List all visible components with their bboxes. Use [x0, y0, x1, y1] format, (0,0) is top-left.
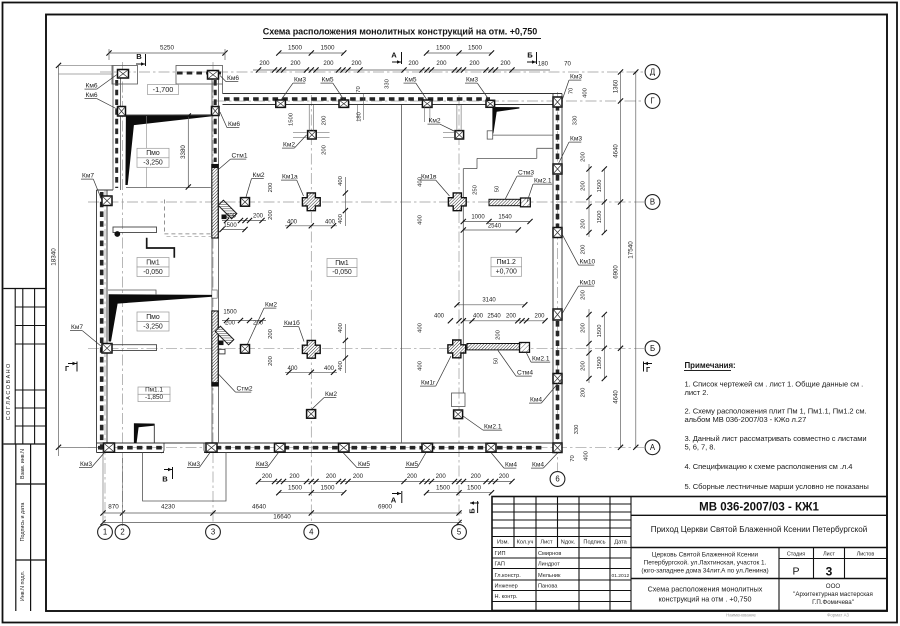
svg-text:1500: 1500 — [223, 223, 237, 229]
svg-text:4. Спецификацию к схеме распол: 4. Спецификацию к схеме расположения см … — [685, 462, 853, 471]
svg-text:Км1в: Км1в — [421, 174, 437, 181]
svg-text:А: А — [391, 51, 397, 60]
column Км4 — [553, 443, 562, 453]
svg-text:Д: Д — [650, 68, 656, 77]
svg-text:200: 200 — [351, 60, 362, 67]
svg-text:1500: 1500 — [468, 45, 483, 52]
svg-text:200: 200 — [534, 314, 545, 320]
svg-text:1500: 1500 — [436, 45, 451, 52]
slab Пм1 left — [137, 258, 169, 268]
wall right (grid 6) — [552, 94, 554, 453]
svg-text:Км7: Км7 — [71, 324, 83, 331]
niche at Км2.1 — [452, 393, 466, 407]
grid bubble Б — [645, 341, 660, 356]
svg-text:Наименование: Наименование — [726, 613, 756, 618]
doorway gap in bottom wall — [164, 451, 204, 455]
svg-text:С О Г Л А С О В А Н О: С О Г Л А С О В А Н О — [6, 364, 12, 420]
svg-text:Км6: Км6 — [86, 83, 98, 90]
svg-text:Подпись: Подпись — [583, 540, 605, 546]
svg-text:Км3: Км3 — [256, 461, 268, 468]
svg-text:Км2.1: Км2.1 — [534, 178, 552, 185]
svg-text:А: А — [650, 443, 656, 452]
svg-text:Км6: Км6 — [86, 92, 98, 99]
svg-text:Б: Б — [650, 344, 655, 353]
slab Пм1.1 — [138, 387, 170, 394]
svg-text:Км3: Км3 — [80, 461, 92, 468]
dim bottom total 16640 — [103, 522, 462, 524]
svg-text:400: 400 — [338, 213, 344, 224]
dim chain bottom main — [103, 512, 462, 514]
stair wedge upper-left (belfry) — [125, 114, 211, 185]
strip cell Подпись и дата — [16, 559, 46, 561]
floor drain dot — [114, 231, 120, 237]
svg-text:50: 50 — [493, 357, 499, 364]
svg-text:Листов: Листов — [857, 551, 875, 557]
svg-text:200: 200 — [408, 60, 419, 67]
svg-text:Км10: Км10 — [580, 280, 596, 287]
column Км2 — [308, 131, 317, 139]
right dim column 1 — [620, 72, 622, 447]
svg-text:Пм1: Пм1 — [335, 260, 349, 267]
column Км6 — [118, 70, 129, 79]
wall bottom (row А) — [97, 442, 563, 444]
slab Пм0 lower — [137, 312, 169, 322]
svg-text:5250: 5250 — [160, 45, 175, 52]
svg-text:Стм3: Стм3 — [518, 170, 534, 177]
svg-text:Стм2: Стм2 — [237, 386, 253, 393]
svg-text:Км6: Км6 — [227, 75, 239, 82]
svg-text:200: 200 — [581, 360, 587, 371]
column Км3 — [553, 164, 562, 174]
svg-text:Б: Б — [468, 508, 477, 514]
svg-text:6900: 6900 — [378, 504, 393, 511]
column Км3 — [104, 443, 115, 452]
svg-text:Б: Б — [527, 51, 533, 60]
svg-text:Км2: Км2 — [283, 142, 295, 149]
stair wedge small lower-left — [134, 423, 155, 443]
svg-text:330: 330 — [574, 424, 580, 435]
title block left grid — [535, 497, 537, 611]
svg-text:-3,250: -3,250 — [143, 160, 163, 167]
extension lines below top wall — [308, 105, 310, 131]
svg-text:200: 200 — [436, 60, 447, 67]
column Км3 — [486, 100, 495, 107]
grid bubble 1 — [98, 525, 113, 540]
svg-text:200: 200 — [322, 115, 328, 126]
svg-text:2540: 2540 — [487, 314, 501, 320]
dashed slab opening edge — [163, 200, 165, 234]
svg-text:Дата: Дата — [614, 540, 627, 546]
dim 3380 line — [187, 116, 189, 187]
column Км7 — [102, 196, 112, 206]
svg-text:70: 70 — [356, 86, 362, 93]
svg-text:200: 200 — [506, 314, 517, 320]
svg-text:200: 200 — [290, 60, 301, 67]
svg-text:ООО: ООО — [826, 583, 841, 590]
svg-text:Км2: Км2 — [429, 118, 441, 125]
grid axes dash-dot — [104, 190, 106, 525]
svg-text:200: 200 — [581, 180, 587, 191]
dim chain bottom 200s — [258, 481, 512, 483]
grid bubble 6 — [550, 472, 565, 487]
svg-text:конструкций на отм . +0,750: конструкций на отм . +0,750 — [658, 595, 751, 604]
column Км5 — [339, 100, 349, 107]
wall pier Стм2 — [212, 311, 218, 386]
svg-text:200: 200 — [326, 473, 337, 480]
svg-text:200: 200 — [268, 355, 274, 366]
column Км3 — [553, 97, 562, 107]
svg-text:Км1г: Км1г — [421, 380, 436, 387]
svg-text:Г.П.Фомичева": Г.П.Фомичева" — [812, 599, 854, 606]
svg-text:Км3: Км3 — [188, 461, 200, 468]
svg-text:Мельник: Мельник — [538, 573, 561, 579]
svg-text:400: 400 — [473, 314, 484, 320]
svg-text:Км1б: Км1б — [284, 319, 300, 327]
dim chain top row 1 — [109, 52, 225, 54]
block Км2.1 end of Стм3 — [521, 198, 531, 207]
title block sheet name — [778, 579, 780, 611]
svg-text:01.2012: 01.2012 — [612, 573, 630, 579]
column Км5 — [422, 100, 432, 107]
svg-text:4: 4 — [309, 528, 314, 537]
belfry block left wall (dashed) — [112, 66, 114, 191]
level -1,700 — [148, 85, 179, 95]
stair slab outline right side — [493, 134, 553, 136]
svg-text:200: 200 — [226, 214, 237, 220]
svg-text:-3,250: -3,250 — [143, 323, 163, 330]
svg-text:альбом МВ 036-2007/03 - КЖо л.: альбом МВ 036-2007/03 - КЖо л.27 — [685, 415, 807, 424]
svg-text:Примечания:: Примечания: — [685, 361, 736, 370]
left attribute strip stamp grid — [4, 288, 47, 290]
svg-text:200: 200 — [471, 473, 482, 480]
svg-text:Инв.N подл.: Инв.N подл. — [20, 571, 26, 601]
svg-text:Линдрот: Линдрот — [538, 562, 560, 568]
beam stub right of grid3 wall (row Б) — [219, 349, 225, 354]
svg-text:200: 200 — [268, 182, 274, 193]
svg-text:200: 200 — [262, 473, 273, 480]
svg-text:400: 400 — [417, 214, 423, 225]
svg-text:5, 6, 7, 8.: 5, 6, 7, 8. — [685, 443, 716, 452]
beam row Б left — [111, 345, 157, 351]
svg-text:+0,700: +0,700 — [496, 269, 517, 276]
svg-text:200: 200 — [500, 60, 511, 67]
svg-text:1500: 1500 — [223, 310, 237, 316]
svg-text:-1,700: -1,700 — [153, 85, 174, 94]
left dim 18340 — [58, 65, 60, 456]
beam Стм4 (row Б) — [467, 344, 520, 350]
belfry stair edge line — [146, 116, 148, 187]
svg-text:17540: 17540 — [628, 241, 635, 259]
svg-text:Км3: Км3 — [570, 136, 582, 143]
title block stage/sheet cells — [813, 548, 815, 579]
svg-text:Пмо: Пмо — [146, 314, 160, 321]
svg-text:70: 70 — [569, 87, 575, 94]
svg-text:лист 2.: лист 2. — [685, 388, 709, 397]
svg-text:6: 6 — [555, 475, 559, 484]
svg-text:Км5: Км5 — [358, 461, 370, 468]
svg-text:870: 870 — [108, 504, 119, 511]
svg-text:Р: Р — [792, 566, 799, 578]
column Км5 — [339, 443, 350, 452]
column Км2 — [455, 131, 464, 139]
block Км2.1 end of Стм4 — [520, 343, 530, 353]
svg-text:1500: 1500 — [467, 485, 482, 492]
svg-text:Км6: Км6 — [228, 121, 240, 128]
svg-text:Км2.1: Км2.1 — [484, 424, 502, 431]
svg-text:Формат А3: Формат А3 — [827, 613, 849, 618]
dim chain bottom 1500s — [279, 492, 344, 494]
column Км1в (cross) — [448, 193, 466, 211]
wall pier Стм1 — [212, 165, 218, 239]
strip cell Взам. инв.N — [15, 444, 17, 611]
belfry block top band — [176, 66, 223, 85]
svg-text:3140: 3140 — [482, 298, 496, 304]
column Км2 — [241, 198, 250, 207]
svg-text:200: 200 — [259, 60, 270, 67]
svg-text:(юго-западнее дома 34лит.А по: (юго-западнее дома 34лит.А по ул.Ленина) — [641, 568, 768, 575]
svg-text:400: 400 — [338, 322, 344, 333]
grid bubble 4 — [304, 525, 319, 540]
svg-text:Км5: Км5 — [322, 77, 334, 84]
title block document number — [631, 514, 887, 516]
svg-text:Схема расположения монолитных: Схема расположения монолитных конструкци… — [263, 27, 537, 37]
svg-text:200: 200 — [436, 473, 447, 480]
svg-text:Км4: Км4 — [530, 397, 542, 404]
svg-text:330: 330 — [385, 78, 391, 89]
svg-text:Км3: Км3 — [466, 77, 478, 84]
grid bubble Д — [645, 65, 660, 80]
svg-text:1500: 1500 — [320, 485, 335, 492]
column Км10 — [553, 228, 562, 238]
column Км1а (cross) — [302, 193, 320, 211]
svg-text:Смирнов: Смирнов — [538, 551, 561, 557]
grid bubble 5 — [452, 525, 467, 540]
svg-text:Схема расположения монолитных: Схема расположения монолитных — [648, 585, 763, 594]
svg-text:180: 180 — [538, 61, 549, 68]
svg-text:Пмо: Пмо — [146, 150, 160, 157]
svg-text:330: 330 — [573, 115, 579, 126]
svg-text:Петербургской. ул.Лахтинская,: Петербургской. ул.Лахтинская, участок 1. — [644, 559, 767, 567]
svg-text:1: 1 — [103, 528, 107, 537]
ext lines at Км2 columns — [293, 132, 307, 134]
column Км2 — [307, 410, 316, 419]
svg-text:Км2.1: Км2.1 — [532, 356, 550, 363]
svg-text:Км2: Км2 — [265, 302, 277, 309]
svg-text:50: 50 — [495, 185, 501, 192]
beam row В left — [113, 227, 157, 233]
svg-text:1500: 1500 — [597, 324, 603, 338]
svg-text:Стм1: Стм1 — [232, 153, 248, 160]
svg-text:Лист: Лист — [540, 540, 553, 546]
column Км6 — [208, 71, 219, 80]
svg-text:70: 70 — [564, 61, 571, 68]
title block object cell — [631, 578, 887, 580]
grid bubble Г — [645, 94, 660, 109]
right dim total 17540 — [635, 72, 637, 447]
svg-text:В: В — [136, 52, 142, 61]
svg-text:400: 400 — [338, 360, 344, 371]
svg-text:Км5: Км5 — [406, 461, 418, 468]
diagonal brace диаг.2 — [215, 326, 234, 345]
column Км3 — [275, 443, 286, 452]
svg-text:Г: Г — [65, 364, 69, 373]
svg-text:5: 5 — [457, 528, 462, 537]
svg-text:Стм4: Стм4 — [517, 370, 533, 377]
svg-text:1500: 1500 — [288, 485, 303, 492]
svg-text:200: 200 — [353, 473, 364, 480]
svg-text:2: 2 — [120, 528, 124, 537]
diagonal brace диаг.1 — [218, 200, 237, 219]
svg-text:1. Список чертежей см . лист 1: 1. Список чертежей см . лист 1. Общие да… — [685, 380, 864, 389]
svg-text:200: 200 — [323, 60, 334, 67]
svg-text:3380: 3380 — [180, 145, 187, 159]
svg-text:200: 200 — [322, 144, 328, 155]
svg-text:400: 400 — [584, 450, 590, 461]
interior slab edge at grid 4+ — [400, 105, 402, 443]
svg-text:Панова: Панова — [538, 584, 558, 590]
svg-text:200: 200 — [499, 473, 510, 480]
column Км1б (cross) — [302, 340, 320, 358]
right small chains — [588, 164, 590, 237]
column Км4 — [486, 443, 496, 452]
grid bubble А — [645, 440, 660, 455]
svg-text:400: 400 — [583, 87, 589, 98]
svg-text:Км1а: Км1а — [282, 174, 298, 181]
svg-text:200: 200 — [407, 473, 418, 480]
column Км2.1 — [454, 410, 463, 419]
svg-text:4640: 4640 — [612, 144, 619, 158]
svg-text:ГАП: ГАП — [495, 562, 505, 568]
slab Пм1.2 — [491, 257, 522, 267]
wall top (row Г) — [223, 93, 563, 95]
svg-text:400: 400 — [417, 360, 423, 371]
stair wedge top-right (grid 5) — [492, 107, 519, 133]
dim chain top row 2 (200s) — [253, 69, 550, 71]
stair wedge mid-left (row Б) — [109, 294, 212, 341]
svg-text:6900: 6900 — [612, 265, 619, 279]
svg-text:1500: 1500 — [436, 485, 451, 492]
svg-text:Изм.: Изм. — [497, 540, 509, 546]
niche on grid 3 wall — [212, 290, 217, 298]
svg-text:4230: 4230 — [161, 504, 176, 511]
svg-text:Пм1.2: Пм1.2 — [497, 259, 516, 266]
grid bubble 2 — [115, 525, 130, 540]
svg-text:4640: 4640 — [252, 504, 267, 511]
svg-text:Лист: Лист — [823, 551, 835, 557]
svg-text:1500: 1500 — [597, 210, 603, 224]
svg-text:ГИП: ГИП — [495, 551, 506, 557]
svg-text:Взам. инв.N: Взам. инв.N — [20, 449, 26, 479]
grid 3 interior wall — [211, 79, 213, 443]
svg-text:В: В — [162, 475, 168, 484]
svg-text:Км3: Км3 — [294, 77, 306, 84]
step above mid-left wedge — [108, 290, 156, 295]
svg-text:400: 400 — [287, 220, 298, 226]
svg-text:400: 400 — [434, 314, 445, 320]
column Км1г (cross) — [448, 340, 466, 358]
svg-text:Км7: Км7 — [82, 173, 94, 180]
svg-text:200: 200 — [581, 387, 587, 398]
grid bubble 3 — [206, 525, 221, 540]
svg-text:Км4: Км4 — [532, 462, 544, 469]
svg-text:200: 200 — [581, 151, 587, 162]
svg-text:Км2: Км2 — [325, 391, 337, 398]
svg-text:Инженер: Инженер — [495, 584, 518, 590]
svg-text:Г: Г — [646, 365, 650, 374]
column Км7 — [102, 344, 112, 354]
svg-text:200: 200 — [581, 218, 587, 229]
svg-text:Км10: Км10 — [580, 259, 596, 266]
column Км4 — [553, 374, 562, 384]
svg-text:200: 200 — [268, 328, 274, 339]
slab Пм1 center — [327, 259, 357, 268]
svg-text:1500: 1500 — [597, 356, 603, 370]
slab Пм0 upper — [137, 148, 169, 158]
column Км10 — [553, 309, 562, 320]
dark stair step zigzag — [147, 238, 175, 258]
svg-text:200: 200 — [268, 209, 274, 220]
svg-text:Подпись и дата: Подпись и дата — [20, 503, 26, 542]
column Км5 — [422, 443, 433, 452]
svg-text:МВ 036-2007/03 - КЖ1: МВ 036-2007/03 - КЖ1 — [699, 502, 819, 514]
svg-text:200: 200 — [495, 329, 501, 340]
svg-text:200: 200 — [581, 289, 587, 300]
svg-text:1500: 1500 — [320, 45, 335, 52]
svg-text:Пм1: Пм1 — [146, 259, 160, 266]
svg-text:400: 400 — [338, 175, 344, 186]
svg-text:200: 200 — [253, 214, 264, 220]
svg-text:400: 400 — [417, 322, 423, 333]
svg-text:Приход Церкви Святой Блаженной: Приход Церкви Святой Блаженной Ксении Пе… — [651, 525, 867, 534]
title block frame — [492, 497, 887, 611]
svg-text:200: 200 — [225, 321, 236, 327]
svg-text:А: А — [391, 496, 397, 505]
svg-text:200: 200 — [253, 321, 264, 327]
svg-text:Км5: Км5 — [405, 77, 417, 84]
dims around Км2 row В — [222, 220, 266, 222]
wall left (grid 1) — [96, 190, 98, 453]
title block project name — [631, 547, 887, 549]
column Км3 — [206, 443, 217, 452]
svg-text:В: В — [650, 198, 655, 207]
grid bubble В — [645, 195, 660, 210]
svg-text:Стадия: Стадия — [787, 551, 805, 557]
column Км3 — [276, 100, 286, 107]
svg-text:-1,850: -1,850 — [145, 394, 164, 401]
svg-text:4640: 4640 — [612, 390, 619, 404]
svg-text:1500: 1500 — [289, 112, 295, 126]
svg-text:18340: 18340 — [50, 248, 57, 266]
svg-text:200: 200 — [581, 322, 587, 333]
belfry block top-left ledge — [112, 66, 138, 85]
svg-text:Км4: Км4 — [505, 462, 517, 469]
svg-text:Кол.уч: Кол.уч — [517, 540, 534, 546]
svg-text:Nдок.: Nдок. — [561, 540, 576, 546]
svg-text:Пм1.1: Пм1.1 — [145, 387, 163, 394]
svg-text:70: 70 — [570, 455, 576, 462]
svg-text:"Архитектурная мастерская: "Архитектурная мастерская — [793, 591, 873, 598]
column Км6 — [212, 107, 220, 116]
svg-text:5. Сборные лестничные марши ус: 5. Сборные лестничные марши условно не п… — [685, 482, 869, 491]
svg-text:3: 3 — [826, 565, 833, 579]
svg-text:16640: 16640 — [273, 514, 291, 521]
svg-text:-0,050: -0,050 — [332, 269, 352, 276]
column Км6 — [118, 107, 126, 117]
svg-text:250: 250 — [472, 184, 478, 195]
svg-text:-0,050: -0,050 — [143, 269, 163, 276]
svg-text:1500: 1500 — [288, 45, 303, 52]
svg-text:1540: 1540 — [498, 214, 512, 220]
